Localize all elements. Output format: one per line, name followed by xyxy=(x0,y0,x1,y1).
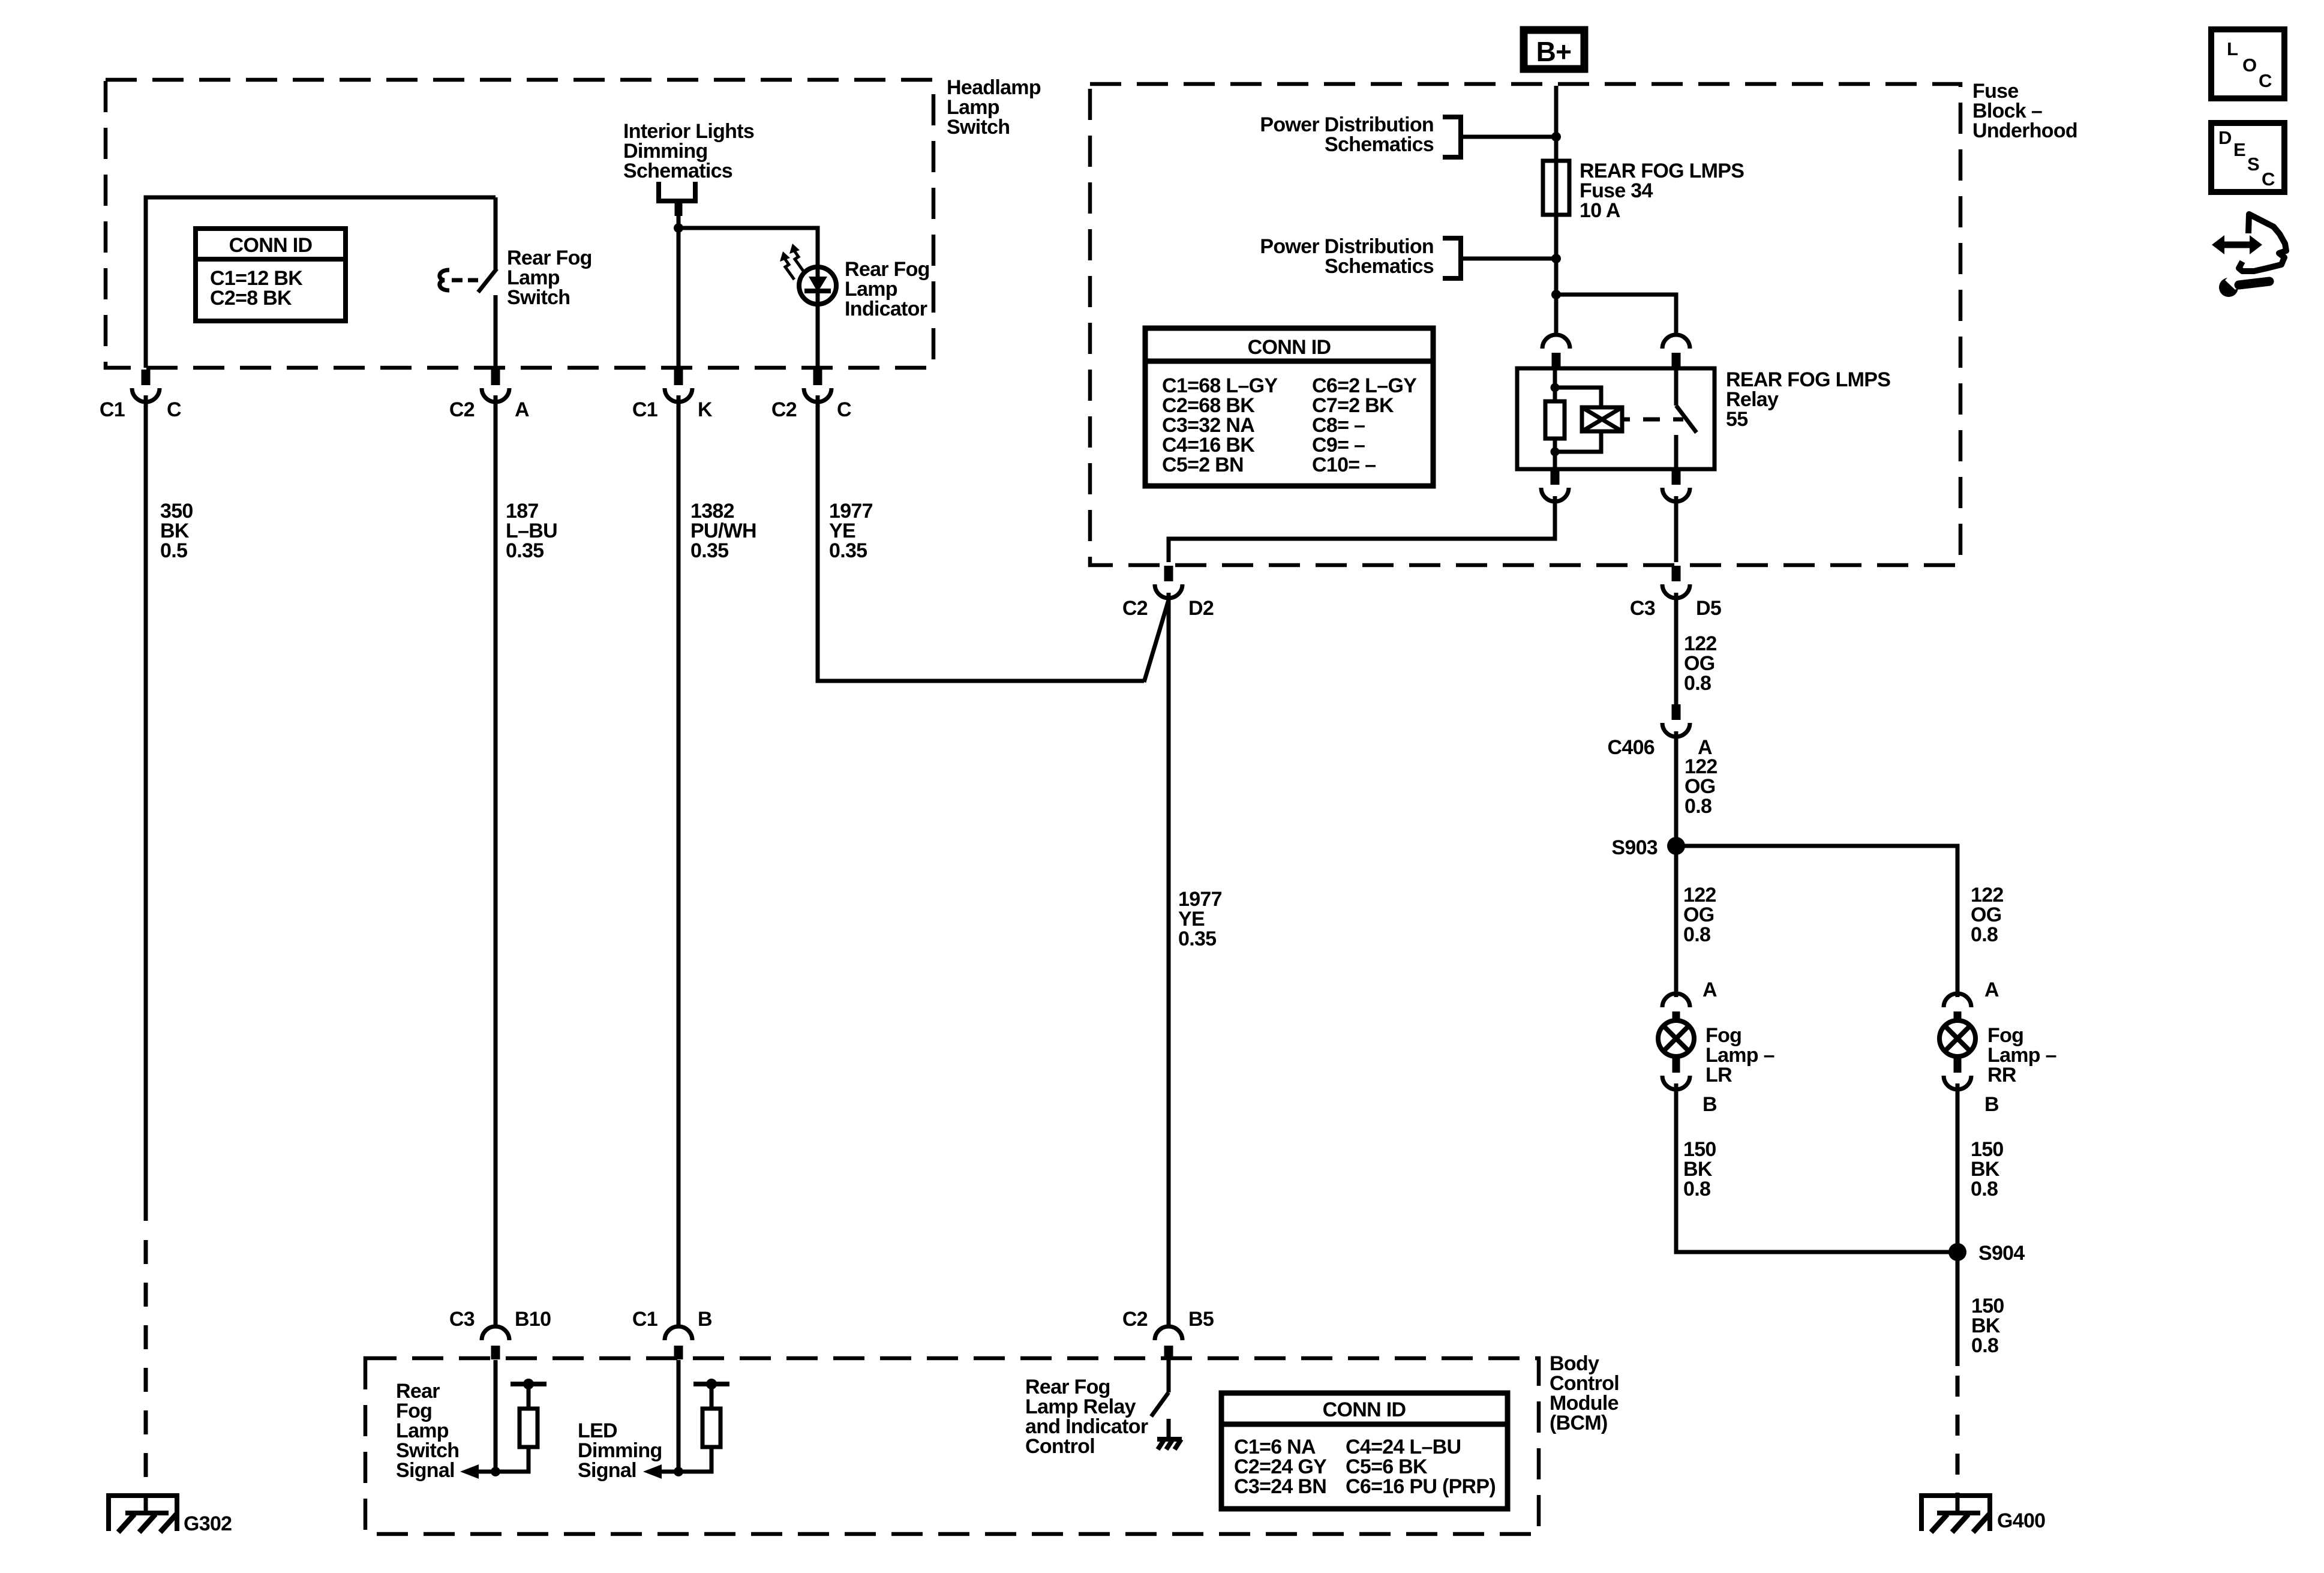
connector C2 pin C xyxy=(804,370,831,402)
svg-text:C3: C3 xyxy=(449,1308,475,1331)
svg-text:0.8: 0.8 xyxy=(1971,1178,1998,1200)
svg-text:S: S xyxy=(2247,154,2259,175)
connector C3 pin D5 xyxy=(1662,566,1690,598)
label Power Distribution Schematics 2 xyxy=(1260,235,1434,278)
wire label 1977 YE 0.35 xyxy=(829,500,873,562)
wire switch upper contact xyxy=(494,197,498,269)
svg-text:Indicator: Indicator xyxy=(845,298,927,320)
svg-text:CONN ID: CONN ID xyxy=(1323,1398,1406,1421)
svg-text:C: C xyxy=(167,398,181,421)
switch detent symbol xyxy=(440,270,449,290)
label C1 / K xyxy=(632,398,713,421)
LED cathode bar xyxy=(804,289,831,293)
wire 122 OG upper xyxy=(1674,593,1679,704)
svg-text:D: D xyxy=(2218,127,2232,148)
relay switch contacts xyxy=(1676,368,1697,469)
wire relay 85 to C2 D2 xyxy=(1169,496,1555,562)
label B (LR) xyxy=(1703,1093,1717,1116)
label C2 / C xyxy=(771,398,851,421)
svg-text:RR: RR xyxy=(1987,1064,2016,1086)
svg-text:K: K xyxy=(698,398,713,421)
label REAR FOG LMPS Relay 55 xyxy=(1726,368,1890,431)
label S904 xyxy=(1978,1242,2025,1265)
wire junction to LED xyxy=(678,228,818,368)
wire label 122 OG 0.8 (upper) xyxy=(1684,632,1717,695)
label A (RR) xyxy=(1984,978,1999,1001)
svg-text:LR: LR xyxy=(1706,1064,1732,1086)
fuse REAR FOG LMPS Fuse 34 10A xyxy=(1543,161,1569,215)
fog lamp LR xyxy=(1658,993,1694,1089)
wire label 1977 YE 0.35 (lower) xyxy=(1178,888,1222,950)
off-page bracket Power Distribution 2 xyxy=(1443,238,1556,278)
wire label 122 OG 0.8 (middle) xyxy=(1685,755,1718,818)
label C3 / D5 xyxy=(1630,597,1721,620)
switch blade (Rear Fog Lamp Switch) xyxy=(478,269,497,292)
svg-text:C3=24 BN: C3=24 BN xyxy=(1234,1475,1326,1498)
connector C2 pin D2 xyxy=(1155,566,1182,598)
CONN ID table (BCM) xyxy=(1221,1393,1508,1509)
wire 1977 YE down and right xyxy=(818,395,1144,681)
connector C1 pin K xyxy=(665,370,692,402)
svg-text:0.35: 0.35 xyxy=(1178,927,1216,950)
wire 150 BK LR xyxy=(1676,1083,1957,1252)
svg-text:C406: C406 xyxy=(1608,736,1655,759)
wire label 1382 PU/WH 0.35 xyxy=(690,500,756,562)
svg-text:Schematics: Schematics xyxy=(1325,133,1434,156)
svg-text:O: O xyxy=(2242,55,2256,76)
svg-text:C1: C1 xyxy=(632,398,657,421)
svg-text:10 A: 10 A xyxy=(1580,199,1620,222)
wire label 150 BK 0.8 (below S904) xyxy=(1971,1295,2004,1357)
label B (RR) xyxy=(1984,1093,1999,1116)
wire 122 OG middle xyxy=(1674,731,1679,846)
wire switch feed horizontal xyxy=(146,197,496,368)
wire label 150 BK 0.8 (RR) xyxy=(1971,1138,2004,1200)
svg-text:S903: S903 xyxy=(1611,836,1658,859)
svg-text:Schematics: Schematics xyxy=(623,160,732,182)
label C1 / C xyxy=(100,398,181,421)
connector C2 pin A xyxy=(482,370,509,402)
wire label 122 OG 0.8 (left lamp) xyxy=(1683,884,1716,946)
label C3 / B10 xyxy=(449,1308,551,1331)
svg-text:C1: C1 xyxy=(100,398,125,421)
relay pin 86 connector xyxy=(1662,335,1690,368)
relay pin 85 connector xyxy=(1541,469,1569,502)
label G302 xyxy=(184,1512,232,1535)
svg-text:0.8: 0.8 xyxy=(1971,923,1998,946)
svg-text:Switch: Switch xyxy=(947,116,1010,139)
svg-text:D5: D5 xyxy=(1696,597,1721,620)
label C2 / D2 xyxy=(1122,597,1214,620)
connector C1 pin B xyxy=(665,1326,692,1359)
label A (LR) xyxy=(1703,978,1717,1001)
wire bracket to junction xyxy=(675,203,683,368)
wire 350 BK (to G302) solid xyxy=(144,395,148,1221)
relay coil junction dots xyxy=(1551,383,1560,457)
svg-text:Signal: Signal xyxy=(396,1459,455,1482)
Fuse Block Underhood dashed box xyxy=(1090,84,1960,565)
relay linkage dashes xyxy=(1622,418,1683,422)
wire switch lower contact xyxy=(494,295,498,368)
wire 1977 YE to BCM xyxy=(1167,593,1171,1325)
svg-text:C1: C1 xyxy=(632,1308,657,1331)
wire B+ to relay xyxy=(1554,86,1559,334)
svg-text:A: A xyxy=(1703,978,1717,1001)
svg-text:C2=8 BK: C2=8 BK xyxy=(210,287,292,310)
connector C2 pin B5 xyxy=(1155,1326,1182,1359)
svg-text:0.5: 0.5 xyxy=(160,539,187,562)
wire label 187 L-BU 0.35 xyxy=(506,500,557,562)
svg-text:Switch: Switch xyxy=(507,286,570,309)
BCM relay driver switch xyxy=(1151,1360,1169,1439)
label Interior Lights Dimming Schematics xyxy=(623,120,754,182)
off-page bracket Interior Lights Dimming xyxy=(659,182,695,201)
svg-text:0.35: 0.35 xyxy=(690,539,728,562)
wire 150 BK dashed to G400 xyxy=(1956,1376,1960,1495)
switch linkage dashes xyxy=(452,278,478,283)
label LED Dimming Signal xyxy=(578,1419,662,1482)
LED indicator Rear Fog Lamp (circle) xyxy=(799,267,836,304)
ground G400 xyxy=(1921,1496,1990,1532)
svg-text:C2: C2 xyxy=(449,398,475,421)
svg-text:0.8: 0.8 xyxy=(1684,672,1711,695)
svg-text:B: B xyxy=(1984,1093,1999,1116)
svg-text:C: C xyxy=(2259,70,2272,91)
svg-text:C2: C2 xyxy=(1122,1308,1148,1331)
svg-text:Schematics: Schematics xyxy=(1325,255,1434,278)
svg-text:Control: Control xyxy=(1025,1435,1095,1458)
ground G302 xyxy=(109,1496,177,1532)
LOC reference box xyxy=(2211,29,2284,98)
wire 1382 PU/WH down to BCM xyxy=(677,395,681,1325)
svg-text:S904: S904 xyxy=(1978,1242,2025,1265)
label Fog Lamp - LR xyxy=(1706,1024,1774,1086)
wire label 350 BK 0.5 xyxy=(160,500,193,562)
svg-text:Signal: Signal xyxy=(578,1459,636,1482)
label Fog Lamp - RR xyxy=(1987,1024,2056,1086)
CONN ID table (fuse block) xyxy=(1145,328,1433,486)
label G400 xyxy=(1997,1509,2045,1532)
svg-text:C2: C2 xyxy=(771,398,797,421)
LED emission arrows xyxy=(780,244,804,280)
CONN ID table (headlamp switch) xyxy=(196,229,346,321)
splice S904 xyxy=(1948,1243,1966,1261)
svg-text:E: E xyxy=(2233,139,2245,160)
connector C406 pin A xyxy=(1662,704,1690,737)
relay coil loop wire xyxy=(1555,388,1601,452)
svg-text:A: A xyxy=(1984,978,1999,1001)
relay pin 30 connector xyxy=(1542,335,1570,368)
svg-text:C10= –: C10= – xyxy=(1312,454,1376,476)
svg-text:0.8: 0.8 xyxy=(1971,1334,1998,1357)
label Rear Fog Lamp Indicator xyxy=(845,258,930,320)
svg-text:CONN ID: CONN ID xyxy=(1248,336,1331,359)
svg-text:C: C xyxy=(2262,169,2275,190)
wire S903 branch right xyxy=(1676,846,1957,997)
svg-text:(BCM): (BCM) xyxy=(1550,1412,1608,1434)
svg-text:A: A xyxy=(515,398,529,421)
LED cathode triangle xyxy=(809,277,827,292)
svg-text:55: 55 xyxy=(1726,408,1747,431)
label C406 / A xyxy=(1608,736,1712,759)
BCM LED dimming signal input xyxy=(643,1360,729,1479)
label Body Control Module (BCM) xyxy=(1550,1352,1619,1434)
wire 187 L-BU down to BCM xyxy=(494,395,498,1325)
svg-text:0.35: 0.35 xyxy=(829,539,867,562)
junction dot B+ tap 2 xyxy=(1551,254,1561,263)
label C1 / B xyxy=(632,1308,712,1331)
BCM internal ground xyxy=(1157,1439,1182,1449)
label C2 / A xyxy=(449,398,529,421)
label Rear Fog Lamp Switch Signal xyxy=(396,1380,459,1482)
svg-text:0.8: 0.8 xyxy=(1683,1178,1710,1200)
svg-text:B: B xyxy=(1703,1093,1717,1116)
svg-text:C: C xyxy=(837,398,851,421)
wire label 122 OG 0.8 (right lamp) xyxy=(1971,884,2004,946)
svg-text:C5=2 BN: C5=2 BN xyxy=(1162,454,1244,476)
DESC reference box xyxy=(2211,123,2284,192)
B+ power feed box xyxy=(1524,30,1584,69)
svg-text:D2: D2 xyxy=(1188,597,1214,620)
svg-text:0.8: 0.8 xyxy=(1683,923,1710,946)
junction dot node K xyxy=(674,223,683,233)
svg-text:G400: G400 xyxy=(1997,1509,2045,1532)
svg-text:B10: B10 xyxy=(515,1308,551,1331)
connector C1 pin C xyxy=(132,370,160,402)
wire 150 BK RR xyxy=(1956,1083,1960,1366)
BCM rear fog lamp switch signal input xyxy=(460,1360,547,1479)
svg-text:L: L xyxy=(2227,38,2238,59)
off-page bracket Power Distribution 1 xyxy=(1443,117,1556,157)
svg-text:C3: C3 xyxy=(1630,597,1655,620)
wire label 150 BK 0.8 (LR) xyxy=(1683,1138,1716,1200)
relay coil resistor xyxy=(1545,368,1565,469)
splice S903 xyxy=(1667,837,1685,855)
relay REAR FOG LMPS Relay 55 box xyxy=(1517,368,1715,469)
svg-text:CONN ID: CONN ID xyxy=(229,234,313,257)
wire relay 87 down xyxy=(1674,496,1679,562)
service icon (arrow, component, wrench) xyxy=(2212,214,2286,297)
svg-text:0.8: 0.8 xyxy=(1685,795,1712,818)
wire 1977 YE diagonal to C2 D2 xyxy=(1144,600,1169,682)
wire S903 down left lamp xyxy=(1674,846,1679,997)
label S903 xyxy=(1611,836,1658,859)
label Rear Fog Lamp Relay and Indicator Control xyxy=(1025,1376,1148,1458)
relay pin 87 connector xyxy=(1662,469,1690,502)
fog lamp RR xyxy=(1939,993,1975,1089)
svg-text:C6=16 PU (PRP): C6=16 PU (PRP) xyxy=(1346,1475,1496,1498)
svg-text:C2: C2 xyxy=(1122,597,1148,620)
junction dot relay branch xyxy=(1551,290,1561,299)
label Rear Fog Lamp Switch xyxy=(507,247,592,309)
Body Control Module dashed box xyxy=(365,1358,1539,1534)
label Power Distribution Schematics 1 xyxy=(1260,113,1434,156)
svg-text:G302: G302 xyxy=(184,1512,232,1535)
svg-text:B5: B5 xyxy=(1188,1308,1214,1331)
label C2 / B5 xyxy=(1122,1308,1214,1331)
junction dot B+ tap 1 xyxy=(1551,132,1561,142)
Headlamp Lamp Switch dashed box xyxy=(106,80,933,368)
label Fuse 34 xyxy=(1580,160,1744,222)
wire branch to relay switch pin xyxy=(1556,295,1676,334)
svg-text:B+: B+ xyxy=(1536,36,1572,67)
svg-text:0.35: 0.35 xyxy=(506,539,544,562)
label Headlamp Lamp Switch xyxy=(947,76,1041,139)
svg-text:B: B xyxy=(698,1308,712,1331)
svg-text:Underhood: Underhood xyxy=(1972,119,2077,142)
wire 350 BK dashed segment xyxy=(144,1240,148,1495)
relay solenoid coil symbol xyxy=(1582,407,1622,431)
connector C3 pin B10 xyxy=(482,1326,509,1359)
label Fuse Block - Underhood xyxy=(1972,80,2077,142)
